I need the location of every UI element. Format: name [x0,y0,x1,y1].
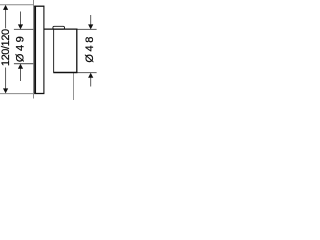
arrow up to Ø49 bottom [18,64,23,69]
dimension Ø48 shaft top [90,15,92,25]
plate top edge [34,5,44,7]
extension line bottom (120/120) [0,93,34,95]
knob inner vertical [53,29,55,73]
background [0,0,100,100]
extension line Ø48 bottom [77,72,96,74]
plate left face [34,6,36,94]
extension line Ø49 top [14,28,34,30]
plate bottom edge [34,93,44,95]
svg-text:Ø49: Ø49 [14,34,26,62]
extension line Ø48 top [77,28,96,30]
arrow down to Ø49 top [18,24,23,29]
wall line [33,0,35,99]
arrow down 120/120 [3,88,8,93]
knob bottom edge [53,72,77,74]
button pill on knob [53,26,65,29]
svg-text:Ø48: Ø48 [84,34,96,63]
dimension Ø49 shaft top [20,12,22,26]
dimension Ø48 shaft bottom [90,77,92,86]
arrow up 120/120 [3,5,8,10]
extension line top (120/120) [0,4,34,6]
centerline below knob [73,73,75,100]
extension line Ø49 bottom [14,63,34,65]
knob top edge [44,28,78,30]
dimension Ø49 shaft bottom [20,68,22,81]
dimension 120/120 shaft upper [5,9,7,28]
dimension 120/120 shaft lower [5,68,7,90]
arrow down to Ø48 top [88,24,93,29]
arrow up to Ø48 bottom [88,73,93,78]
knob front face [76,29,78,74]
svg-text:120/120: 120/120 [0,29,12,66]
plate right face [43,6,45,94]
